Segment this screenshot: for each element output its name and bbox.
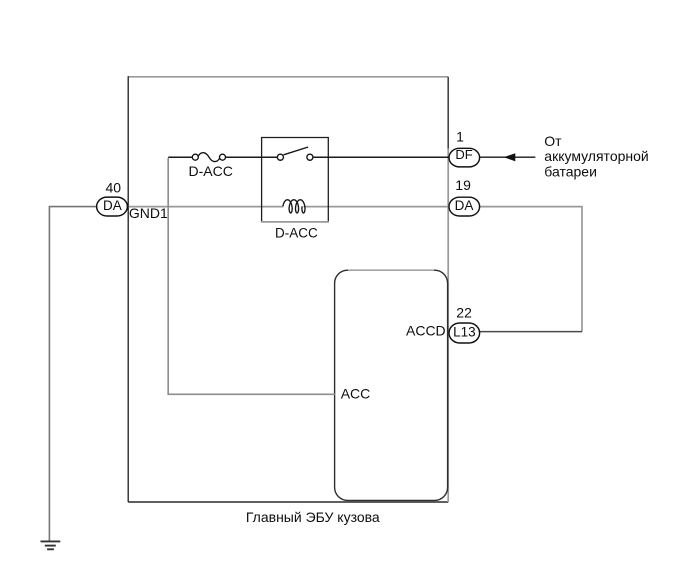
fuse D-ACC — [192, 153, 225, 162]
svg-text:40: 40 — [106, 179, 122, 195]
battery feed arrow — [480, 153, 536, 161]
main ECU box (Главный ЭБУ кузова) — [128, 76, 448, 502]
relay box D-ACC — [261, 138, 329, 222]
svg-text:ACC: ACC — [341, 386, 371, 402]
svg-text:L13: L13 — [453, 324, 476, 339]
svg-text:19: 19 — [455, 177, 471, 193]
svg-text:DA: DA — [103, 198, 122, 213]
svg-text:аккумуляторной: аккумуляторной — [544, 148, 648, 164]
svg-text:DA: DA — [455, 198, 474, 213]
battery feed label — [544, 133, 648, 179]
ACC block (inner unit) — [335, 270, 448, 500]
svg-text:ACCD: ACCD — [406, 323, 446, 339]
wire: GND1 to ground — [49, 207, 97, 541]
svg-text:DF: DF — [455, 147, 472, 162]
svg-text:D-ACC: D-ACC — [189, 163, 233, 179]
connector DF pin 1 — [449, 147, 480, 167]
svg-text:1: 1 — [456, 128, 464, 144]
relay coil — [283, 200, 305, 213]
svg-text:GND1: GND1 — [129, 205, 168, 221]
connector L13 pin 22 — [449, 323, 480, 343]
svg-text:22: 22 — [456, 305, 472, 321]
connector DA pin 40 (GND1) — [97, 197, 128, 216]
svg-text:От: От — [544, 133, 562, 149]
wire: DA(19) loop to L13/ACCD — [479, 207, 582, 332]
relay contact (switch) — [277, 147, 313, 160]
svg-text:Главный ЭБУ кузова: Главный ЭБУ кузова — [246, 509, 380, 525]
ground — [41, 541, 61, 549]
connector DA pin 19 — [449, 197, 480, 216]
wire: vertical drop from fuse line to ACC input — [168, 158, 335, 394]
wire: gray bus DA(40) to DA(19) through relay coil — [129, 206, 449, 208]
svg-text:батареи: батареи — [544, 163, 597, 179]
svg-text:D-ACC: D-ACC — [275, 225, 318, 240]
wire: fuse feed to relay contact and DF — [168, 156, 449, 158]
